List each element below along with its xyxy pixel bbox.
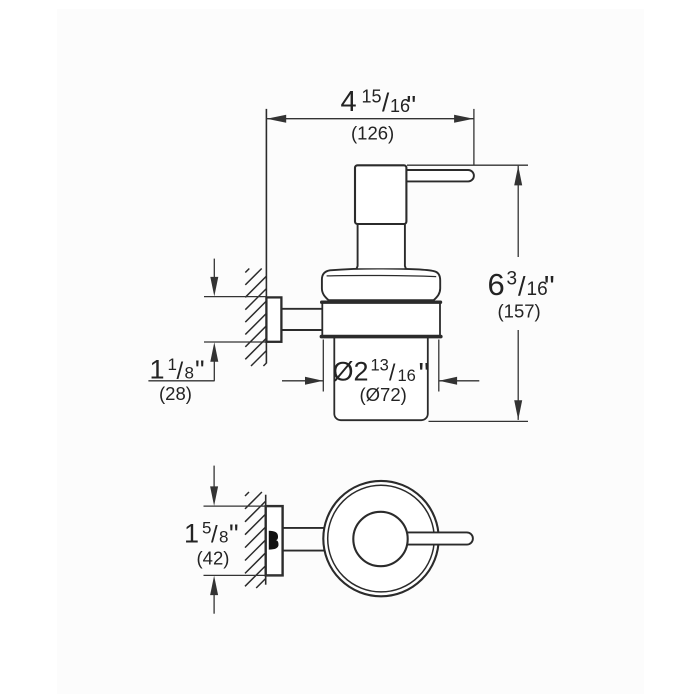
- dimension D72 lines: [282, 340, 479, 392]
- pump lever: [402, 170, 474, 181]
- bottom view arm: [281, 528, 332, 551]
- svg-text:(157): (157): [498, 301, 541, 322]
- svg-text:6: 6: [488, 267, 505, 302]
- dimension 157 extension lines: [407, 165, 528, 421]
- dome collar (front view): [322, 269, 440, 301]
- svg-text:(Ø72): (Ø72): [360, 384, 407, 405]
- holder arm (front): [280, 309, 323, 330]
- holder ring band (front): [322, 302, 440, 336]
- svg-text:4: 4: [341, 86, 357, 118]
- svg-text:1: 1: [150, 354, 165, 384]
- dimension 42 text: [184, 518, 239, 568]
- svg-text:": ": [407, 91, 417, 121]
- dimension 157 text: [488, 267, 555, 321]
- wall line (front): [265, 109, 267, 364]
- svg-text:(28): (28): [159, 383, 192, 404]
- bottom view wall hatching: [245, 492, 266, 588]
- svg-text:": ": [544, 270, 555, 303]
- svg-text:15: 15: [362, 87, 382, 107]
- bottom view outer ring: [323, 481, 438, 596]
- svg-text:13: 13: [371, 357, 389, 375]
- bottom view screw blob: [269, 531, 279, 550]
- svg-text:(126): (126): [351, 123, 394, 144]
- svg-text:": ": [419, 356, 430, 391]
- dimension 28 text: [150, 354, 205, 404]
- dimension D72 text: [333, 356, 430, 405]
- glass bottle: [334, 337, 428, 420]
- svg-text:(42): (42): [197, 548, 230, 569]
- svg-text:1: 1: [184, 518, 199, 548]
- dimension 126 text: [341, 86, 417, 144]
- bottom view wall plate: [266, 506, 283, 575]
- svg-text:8: 8: [219, 527, 228, 546]
- dimension 28 lines: [148, 259, 266, 381]
- svg-text:/: /: [518, 272, 526, 302]
- bottom view wall line: [265, 495, 267, 585]
- svg-text:": ": [195, 355, 205, 385]
- svg-text:3: 3: [507, 269, 518, 290]
- svg-text:16: 16: [398, 367, 416, 385]
- pump head: [355, 165, 406, 224]
- bottom view pump circle: [353, 512, 407, 566]
- pump neck: [358, 221, 405, 268]
- svg-text:/: /: [177, 358, 184, 385]
- bottom view lever: [396, 532, 473, 544]
- svg-text:": ": [229, 519, 239, 549]
- svg-text:/: /: [382, 88, 390, 118]
- svg-text:8: 8: [185, 363, 194, 382]
- dimension 42 lines: [204, 466, 283, 614]
- wall mounting plate (front): [266, 297, 281, 341]
- svg-text:/: /: [389, 360, 396, 386]
- dimension 126 line: [266, 109, 474, 166]
- wall hatching (front): [245, 269, 266, 367]
- svg-text:Ø2: Ø2: [333, 357, 369, 387]
- bottom view inner ring: [328, 485, 435, 592]
- svg-text:/: /: [211, 522, 218, 549]
